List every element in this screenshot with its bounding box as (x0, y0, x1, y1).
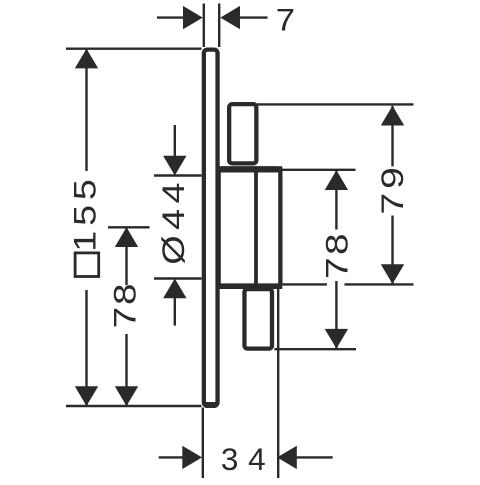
label 7 (276, 3, 295, 38)
dimension line 79 upper segment (391, 106, 393, 167)
lower function block (244, 289, 272, 349)
arrow 79 down (381, 264, 404, 284)
extension line 34 right (277, 288, 279, 479)
dimension line 79 lower segment (391, 216, 393, 285)
svg-text:Ø44: Ø44 (157, 177, 191, 265)
dimension line 78 left lower segment (125, 334, 127, 406)
wall plate (204, 50, 218, 406)
svg-text:78: 78 (320, 231, 355, 279)
arrow 7 right (220, 6, 240, 29)
dimension line 78 left upper segment (125, 227, 127, 285)
label 78 right (320, 231, 355, 279)
extension line 79 top (257, 103, 414, 105)
svg-text:7: 7 (276, 3, 295, 38)
extension line 79 bottom (283, 283, 328, 285)
dimension line 155 lower segment (85, 290, 87, 406)
svg-text:78: 78 (108, 282, 143, 329)
extension line 155 top (66, 48, 202, 50)
mixer body mid flange (219, 168, 281, 285)
arrow 78 left down (115, 386, 138, 406)
dimension line 34 left tail (159, 456, 184, 458)
svg-text:3 4: 3 4 (221, 441, 266, 477)
extension line 7 left (203, 4, 205, 48)
dimension line 7 right tail (240, 16, 268, 18)
body edge line behind flange (254, 167, 258, 287)
arrow 155 down (75, 386, 98, 406)
arrow 78 left up (115, 227, 138, 247)
dimension line 155 upper segment (85, 49, 87, 171)
dimension line 78 right lower segment (335, 281, 337, 349)
extension line 155 bottom (66, 405, 202, 407)
arrow 7 left (183, 6, 203, 29)
plate thick bottom cap (205, 402, 216, 408)
label 155 (68, 174, 102, 251)
square symbol of 155 (75, 253, 99, 277)
arrow 44 up (163, 279, 186, 299)
mid flange thick top edge (217, 166, 282, 172)
label diameter 44 (157, 177, 191, 265)
mid flange thick bottom edge (217, 283, 282, 289)
extension line 78 right bottom (274, 348, 356, 350)
dimension line 78 right upper segment (335, 170, 337, 229)
dimension line 44 upper tail (174, 125, 176, 156)
tick diameter 44 top (154, 174, 202, 176)
upper function block (229, 104, 256, 163)
dimension line 7 left tail (157, 16, 185, 18)
svg-text:79: 79 (375, 163, 410, 214)
dimension line 34 right tail (297, 456, 333, 458)
extension line 7 right (218, 4, 220, 48)
label 78 left (108, 282, 143, 329)
arrow 78 right down (325, 329, 348, 349)
tick diameter 44 bottom (154, 277, 202, 279)
arrow 79 up (381, 106, 404, 126)
extension line 78 right top (282, 169, 356, 171)
dimension line 44 lower tail (174, 298, 176, 326)
tick hole centre left 78 (108, 226, 150, 228)
arrow 34 left (182, 446, 202, 469)
svg-text:155: 155 (68, 174, 102, 251)
extension line 34 left (202, 408, 204, 479)
arrow 34 right (277, 446, 297, 469)
arrow 78 right up (325, 170, 348, 190)
arrow 44 down (163, 156, 186, 176)
arrow 155 up (75, 49, 98, 69)
label 79 (375, 163, 410, 214)
